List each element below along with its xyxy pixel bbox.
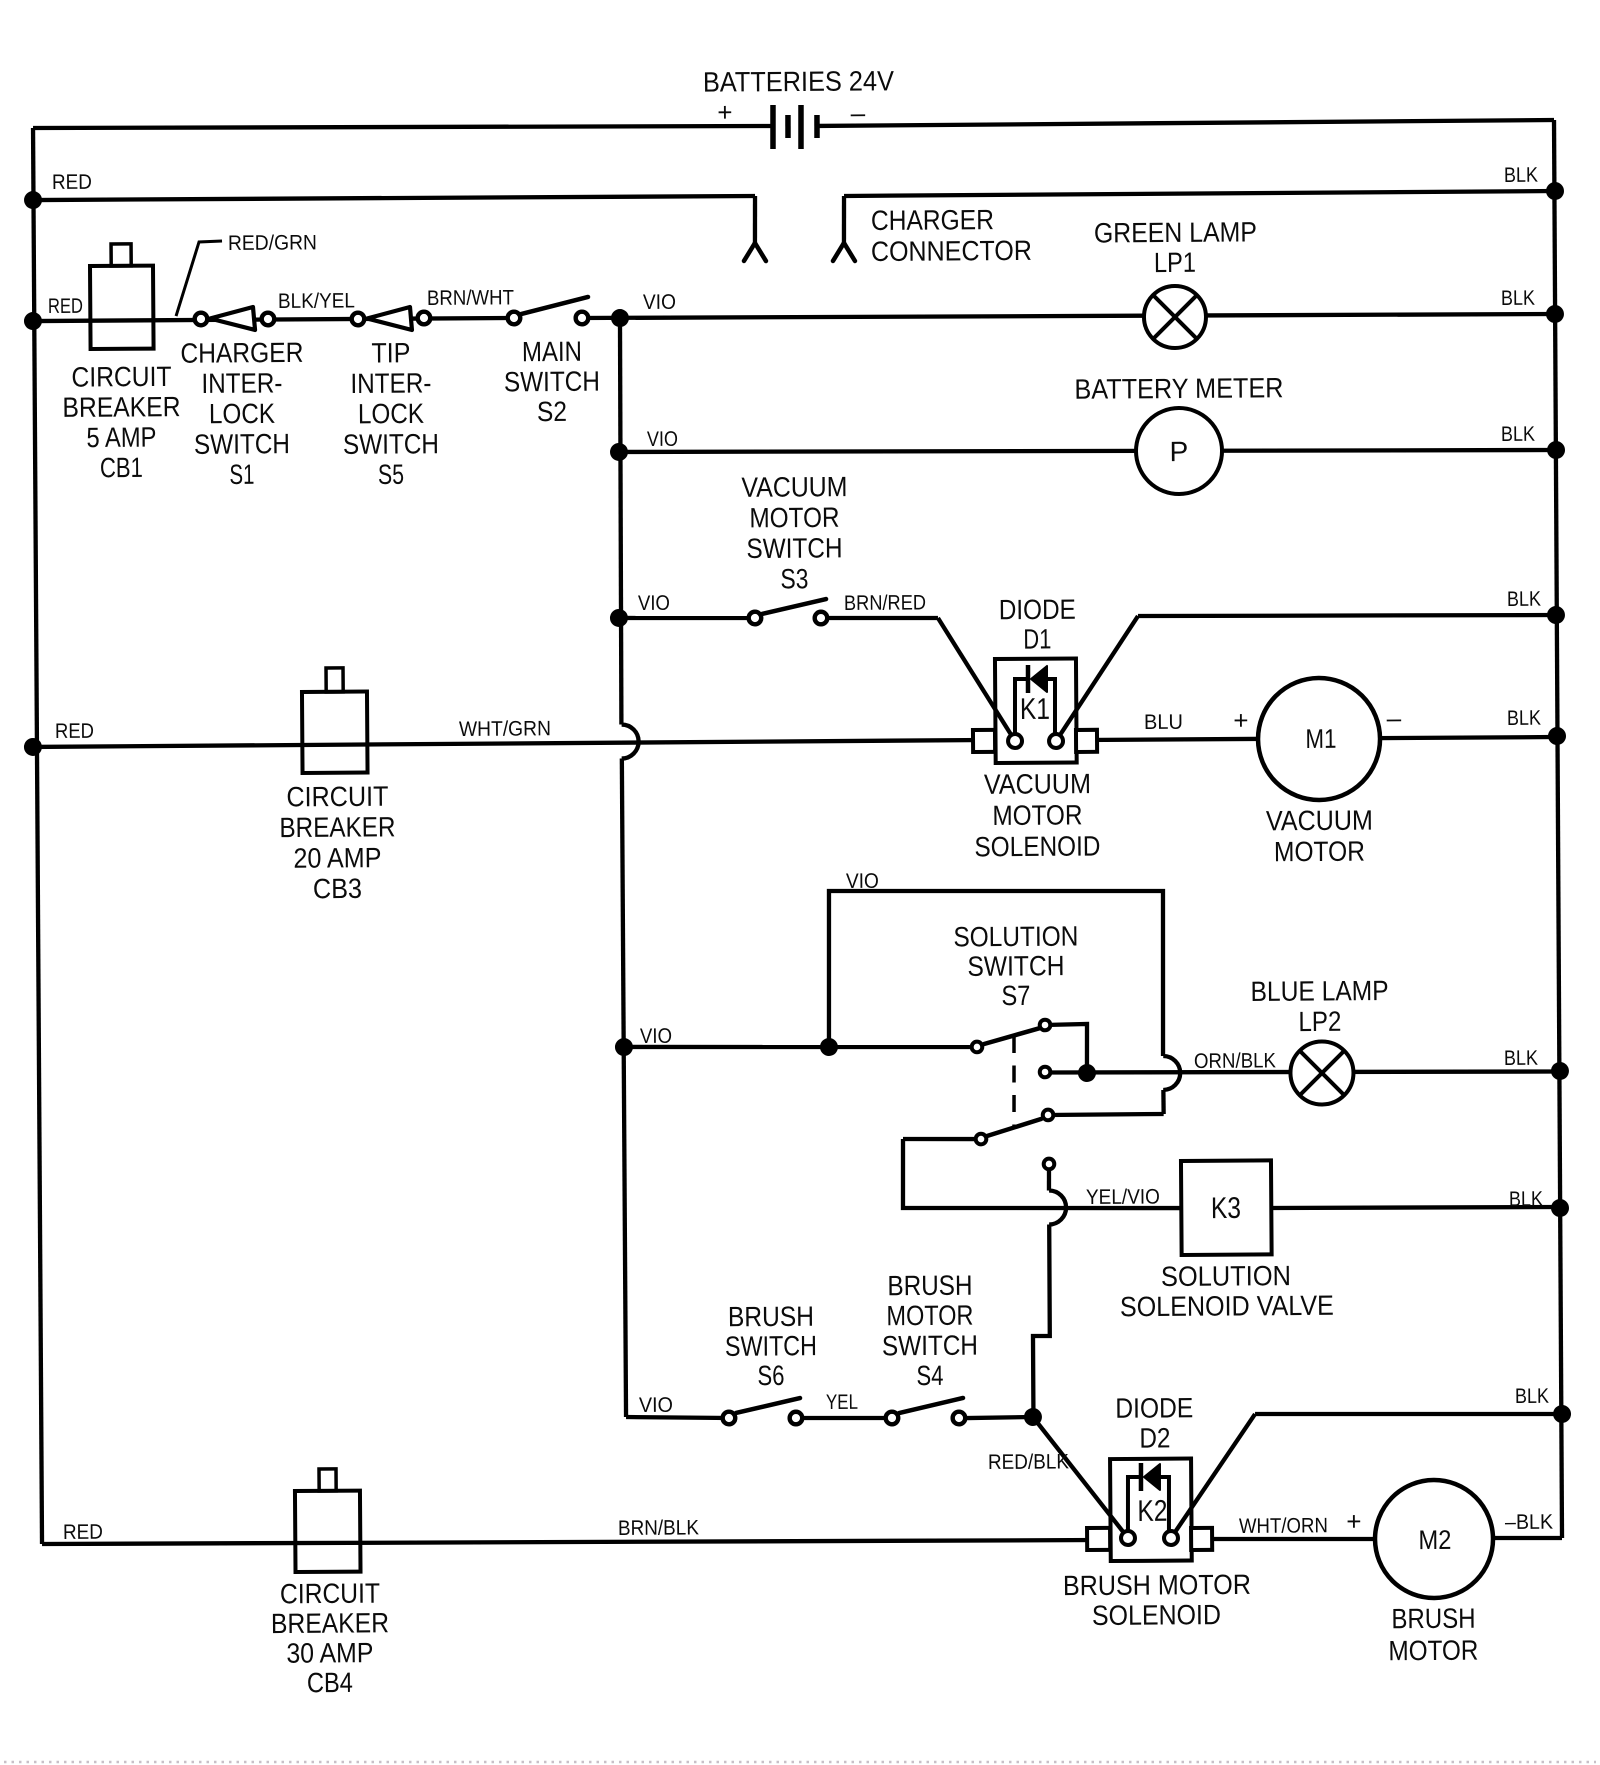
svg-text:BRN/RED: BRN/RED xyxy=(844,591,926,615)
svg-text:WHT/ORN: WHT/ORN xyxy=(1239,1514,1328,1538)
wire: K3 to right bus xyxy=(1271,1206,1560,1209)
svg-text:BLUE LAMP: BLUE LAMP xyxy=(1250,975,1388,1007)
diode D1 wiring inside K1 xyxy=(1015,679,1027,734)
svg-text:BLK: BLK xyxy=(1504,1047,1538,1070)
svg-text:BATTERIES 24V: BATTERIES 24V xyxy=(703,65,895,97)
svg-text:CHARGER: CHARGER xyxy=(871,204,994,236)
svg-text:M1: M1 xyxy=(1305,724,1336,754)
battery meter (circle P) xyxy=(1136,408,1223,495)
svg-text:30 AMP: 30 AMP xyxy=(286,1637,373,1669)
svg-text:M2: M2 xyxy=(1418,1525,1451,1555)
leader line for RED/GRN wire label xyxy=(176,241,223,316)
circuit breaker CB3 body (20 AMP) xyxy=(302,692,368,773)
svg-text:CIRCUIT: CIRCUIT xyxy=(71,361,171,393)
circuit breaker CB1 body (5 AMP) xyxy=(90,266,154,349)
svg-text:BRUSH: BRUSH xyxy=(728,1301,814,1333)
wire: BLK from K2 coil pin to right bus xyxy=(1170,1414,1256,1538)
circuit breaker CB3 button tab xyxy=(326,668,343,692)
circuit breaker CB4 body (30 AMP) xyxy=(295,1491,361,1572)
svg-text:YEL/VIO: YEL/VIO xyxy=(1086,1185,1160,1209)
svg-text:VIO: VIO xyxy=(647,428,678,451)
node: LP2 return junction on right bus xyxy=(1551,1062,1569,1080)
svg-text:SWITCH: SWITCH xyxy=(882,1330,978,1362)
svg-text:S6: S6 xyxy=(757,1360,784,1391)
node: M1 return junction on right bus xyxy=(1548,727,1566,745)
vacuum motor M1 (circle) xyxy=(1258,678,1381,801)
wire: VIO bus corner into brush switch row xyxy=(626,1416,729,1418)
svg-text:RED: RED xyxy=(55,720,94,743)
svg-text:DIODE: DIODE xyxy=(1115,1392,1193,1424)
solution solenoid valve K3 (box) xyxy=(1181,1160,1272,1255)
diode D1 triangle (points left) xyxy=(1031,666,1047,692)
svg-text:P: P xyxy=(1169,436,1188,467)
switch S7 upper blade xyxy=(984,1028,1040,1044)
svg-text:SOLENOID: SOLENOID xyxy=(1092,1599,1221,1631)
svg-text:BLK: BLK xyxy=(1501,287,1535,310)
svg-text:YEL: YEL xyxy=(826,1391,858,1414)
svg-text:TIP: TIP xyxy=(371,337,410,368)
svg-text:RED: RED xyxy=(63,1521,103,1544)
svg-text:VIO: VIO xyxy=(846,870,879,893)
svg-text:BREAKER: BREAKER xyxy=(271,1607,389,1639)
wire: VIO to vacuum motor switch S3 xyxy=(619,617,755,619)
wire: BRN/RED from S3 to K1 coil pin xyxy=(829,617,938,619)
svg-text:LOCK: LOCK xyxy=(209,398,275,429)
wire: BLK feed from charger connector to right bus xyxy=(844,191,1555,196)
svg-text:+: + xyxy=(717,97,732,127)
K1 coil pin contacts xyxy=(1008,734,1022,748)
wire: WHT/ORN from K2 to brush motor M2 xyxy=(1213,1538,1375,1540)
svg-text:ORN/BLK: ORN/BLK xyxy=(1194,1049,1276,1073)
switch S5 blade (tip interlock, tapered blade) xyxy=(367,307,412,330)
green lamp LP1 (circle with X) xyxy=(1144,286,1206,348)
wire: S7 upper throw to output junction xyxy=(1045,1024,1087,1073)
svg-text:MOTOR: MOTOR xyxy=(1274,836,1365,868)
switch S4 contacts xyxy=(886,1412,899,1425)
wire: left RED bus (vertical, left edge) xyxy=(32,128,43,1544)
node: control row junction on left bus xyxy=(24,312,42,330)
svg-text:SOLENOID VALVE: SOLENOID VALVE xyxy=(1120,1290,1334,1322)
diode D2 triangle (points left) xyxy=(1144,1464,1160,1490)
wire: RED branch through CB1 / S1 / S5 / S2 to LP1 (control row) xyxy=(33,318,514,322)
wire: VIO bus (vertical distribution), with hop over CB3 wire xyxy=(619,318,623,724)
wire: VIO to battery meter to right bus xyxy=(619,445,1556,456)
svg-text:5 AMP: 5 AMP xyxy=(86,422,156,453)
svg-text:MOTOR: MOTOR xyxy=(992,799,1082,831)
svg-text:S3: S3 xyxy=(780,563,808,594)
svg-text:K1: K1 xyxy=(1020,693,1050,726)
wire: VIO bypass loop (up, across, down) with hop over ORN/BLK wire xyxy=(828,889,1164,1059)
svg-text:SWITCH: SWITCH xyxy=(194,428,290,460)
svg-text:SWITCH: SWITCH xyxy=(725,1330,817,1362)
svg-text:BRN/BLK: BRN/BLK xyxy=(618,1516,699,1540)
svg-text:BRUSH: BRUSH xyxy=(1391,1603,1475,1635)
wire: drop from S7 auxiliary contact with hop over YEL/VIO wire, down to brush row xyxy=(1047,1164,1052,1191)
K1 right terminal tab xyxy=(1076,730,1097,752)
diode D1 cathode bar xyxy=(1026,665,1031,693)
svg-text:BLK: BLK xyxy=(1507,707,1541,730)
vacuum motor solenoid K1 enclosure xyxy=(995,658,1077,763)
svg-text:LOCK: LOCK xyxy=(358,398,424,429)
wire: right BLK bus (vertical, right edge) xyxy=(1552,120,1564,1538)
svg-text:20 AMP: 20 AMP xyxy=(293,842,381,874)
switch S7 contact circles xyxy=(972,1042,983,1053)
svg-text:SWITCH: SWITCH xyxy=(504,366,600,398)
svg-text:LP1: LP1 xyxy=(1154,247,1196,278)
wire: top wire from battery - to right bus xyxy=(818,120,1554,126)
node: K3 return junction on right bus xyxy=(1551,1199,1569,1217)
node: LP1 return junction on right bus xyxy=(1546,305,1564,323)
wire: S4 output to junction xyxy=(967,1417,1033,1418)
wire: S7 lower-left contact to YEL/VIO drop xyxy=(903,1138,981,1139)
wire: loop bottom into S7 lower contact xyxy=(1048,1114,1164,1115)
node: power row junction on left bus xyxy=(24,738,42,756)
wire: BLK from K1 coil pin to right bus xyxy=(1055,616,1139,741)
svg-text:BLK: BLK xyxy=(1504,164,1538,187)
svg-text:VIO: VIO xyxy=(643,291,676,314)
svg-text:SOLUTION: SOLUTION xyxy=(953,921,1078,953)
K2 right terminal tab xyxy=(1191,1528,1212,1550)
svg-text:BRUSH: BRUSH xyxy=(887,1270,972,1302)
wire: RED/BLK diagonal to K2 coil pin xyxy=(1033,1416,1128,1538)
wire: BLU from K1 output to vacuum motor M1 and right bus xyxy=(1086,737,1554,741)
svg-text:DIODE: DIODE xyxy=(999,594,1076,626)
svg-text:WHT/GRN: WHT/GRN xyxy=(459,717,551,741)
svg-text:SWITCH: SWITCH xyxy=(967,950,1064,982)
svg-text:VIO: VIO xyxy=(639,1394,673,1417)
node: K1 coil return junction on right bus xyxy=(1547,606,1565,624)
svg-text:K2: K2 xyxy=(1137,1495,1167,1528)
node: VIO junction for S7 row xyxy=(615,1038,633,1056)
circuit breaker CB4 button tab xyxy=(319,1469,336,1491)
node: junction feeding S7 bypass loop xyxy=(820,1038,838,1056)
K2 left terminal tab xyxy=(1087,1528,1110,1550)
svg-text:BRUSH MOTOR: BRUSH MOTOR xyxy=(1063,1569,1251,1601)
switch S3 contacts xyxy=(749,612,762,625)
diode D2 cathode bar xyxy=(1139,1463,1144,1491)
charger connector pin (battery - side) xyxy=(841,196,846,243)
svg-text:S2: S2 xyxy=(537,396,567,427)
switch S6 contacts xyxy=(723,1412,736,1425)
brush motor solenoid K2 enclosure xyxy=(1110,1458,1192,1561)
switch S6 blade (brush switch, open) xyxy=(736,1398,800,1413)
svg-text:BLK: BLK xyxy=(1515,1385,1549,1408)
svg-text:CB4: CB4 xyxy=(307,1667,353,1698)
wire: top wire from left bus to battery + xyxy=(33,123,772,131)
svg-text:BLU: BLU xyxy=(1144,711,1183,734)
wire: VIO branch to solution switch S7 xyxy=(621,1045,970,1050)
node: BLK feed junction on right bus xyxy=(1546,182,1564,200)
svg-text:INTER-: INTER- xyxy=(350,367,431,399)
K2 coil pin contacts xyxy=(1121,1531,1135,1545)
switch S2 blade (main switch, open) xyxy=(521,297,588,314)
svg-text:–BLK: –BLK xyxy=(1505,1511,1553,1534)
svg-text:RED/BLK: RED/BLK xyxy=(988,1450,1069,1474)
svg-text:VIO: VIO xyxy=(640,1025,672,1048)
battery BT1 plates (BATTERIES 24V) xyxy=(770,105,776,149)
switch S2 contacts xyxy=(508,312,521,325)
svg-text:VACUUM: VACUUM xyxy=(984,768,1091,800)
svg-text:CB3: CB3 xyxy=(313,873,362,904)
svg-text:BLK/YEL: BLK/YEL xyxy=(278,289,355,313)
svg-text:INTER-: INTER- xyxy=(201,367,282,399)
switch S5 contacts xyxy=(352,313,365,326)
svg-text:BATTERY METER: BATTERY METER xyxy=(1074,372,1283,404)
switch S4 blade (brush motor switch, open) xyxy=(899,1398,963,1413)
svg-text:K3: K3 xyxy=(1211,1192,1241,1225)
wire: RED from left bus through CB4 to K2 (brush power row) xyxy=(42,1537,1098,1548)
svg-text:BLK: BLK xyxy=(1501,423,1535,446)
svg-text:SOLENOID: SOLENOID xyxy=(974,831,1100,863)
svg-text:MOTOR: MOTOR xyxy=(749,502,839,534)
svg-text:GREEN LAMP: GREEN LAMP xyxy=(1094,216,1257,248)
svg-text:–: – xyxy=(1387,703,1402,733)
svg-text:VIO: VIO xyxy=(638,592,670,615)
wire: RED from left bus through CB3 to K1 (power row) xyxy=(33,740,984,747)
svg-text:RED: RED xyxy=(48,295,83,318)
svg-text:S7: S7 xyxy=(1001,980,1030,1011)
svg-text:MAIN: MAIN xyxy=(522,336,582,367)
svg-text:BLK: BLK xyxy=(1507,588,1541,611)
svg-text:BREAKER: BREAKER xyxy=(279,811,395,843)
switch S3 blade (vacuum motor switch, open) xyxy=(762,599,826,614)
charger connector pin (battery + side) xyxy=(752,196,757,243)
svg-text:S4: S4 xyxy=(916,1360,943,1391)
node: VIO junction for S3 row xyxy=(610,609,628,627)
scan artifact: faint dotted line at page bottom xyxy=(4,1761,1596,1764)
svg-text:S5: S5 xyxy=(378,459,404,490)
svg-text:BRN/WHT: BRN/WHT xyxy=(427,286,514,310)
svg-text:VACUUM: VACUUM xyxy=(741,471,847,503)
node: VIO junction for meter row xyxy=(610,443,628,461)
svg-text:SWITCH: SWITCH xyxy=(343,428,439,460)
svg-text:D1: D1 xyxy=(1023,623,1051,654)
svg-text:CHARGER: CHARGER xyxy=(180,337,303,369)
node: K2 coil return junction on right bus xyxy=(1553,1405,1571,1423)
diode D2 wiring inside K2 xyxy=(1128,1477,1140,1531)
node: RED feed junction on left bus xyxy=(24,191,42,209)
circuit breaker CB1 button tab xyxy=(111,244,131,266)
wire: M2 to right bus (BLK return) xyxy=(1493,1535,1562,1540)
svg-text:MOTOR: MOTOR xyxy=(1388,1635,1478,1667)
svg-text:–: – xyxy=(851,98,866,128)
svg-text:SOLUTION: SOLUTION xyxy=(1161,1260,1291,1292)
svg-text:D2: D2 xyxy=(1139,1422,1170,1453)
svg-text:BREAKER: BREAKER xyxy=(62,391,180,423)
svg-text:VACUUM: VACUUM xyxy=(1266,805,1373,837)
switch S7 lower blade xyxy=(987,1119,1041,1136)
brush motor M2 (circle) xyxy=(1375,1480,1494,1599)
switch S7 mechanical tie (dashed) xyxy=(1013,1036,1014,1128)
svg-text:RED: RED xyxy=(52,171,92,194)
node: VIO bus tap (control row) xyxy=(611,309,629,327)
svg-text:CB1: CB1 xyxy=(100,452,143,483)
svg-text:RED/GRN: RED/GRN xyxy=(228,231,317,255)
blue lamp LP2 (circle with X) xyxy=(1290,1041,1353,1104)
svg-text:+: + xyxy=(1233,705,1248,735)
node: meter return junction on right bus xyxy=(1547,441,1565,459)
svg-text:BLK: BLK xyxy=(1509,1188,1543,1211)
switch S1 blade (charger interlock, tapered blade) xyxy=(210,307,255,330)
wire: RED feed from left bus to charger connector xyxy=(33,195,755,201)
svg-text:LP2: LP2 xyxy=(1298,1006,1341,1037)
svg-text:CIRCUIT: CIRCUIT xyxy=(280,1578,380,1610)
switch S1 contacts xyxy=(195,313,208,326)
svg-text:CONNECTOR: CONNECTOR xyxy=(871,235,1032,267)
node: brush row junction (S4 / S7 aux / K2) xyxy=(1024,1408,1042,1426)
svg-text:CIRCUIT: CIRCUIT xyxy=(286,781,388,813)
svg-text:+: + xyxy=(1346,1506,1361,1536)
node: S7 output junction xyxy=(1078,1064,1096,1082)
svg-text:S1: S1 xyxy=(229,459,254,490)
K1 left terminal tab xyxy=(973,730,995,752)
wire: S7 centre throw to output junction and ORN/BLK to LP2 xyxy=(1045,1069,1560,1075)
svg-text:MOTOR: MOTOR xyxy=(886,1300,973,1332)
wire: YEL between S6 and S4 xyxy=(804,1417,892,1418)
svg-text:SWITCH: SWITCH xyxy=(746,532,842,564)
